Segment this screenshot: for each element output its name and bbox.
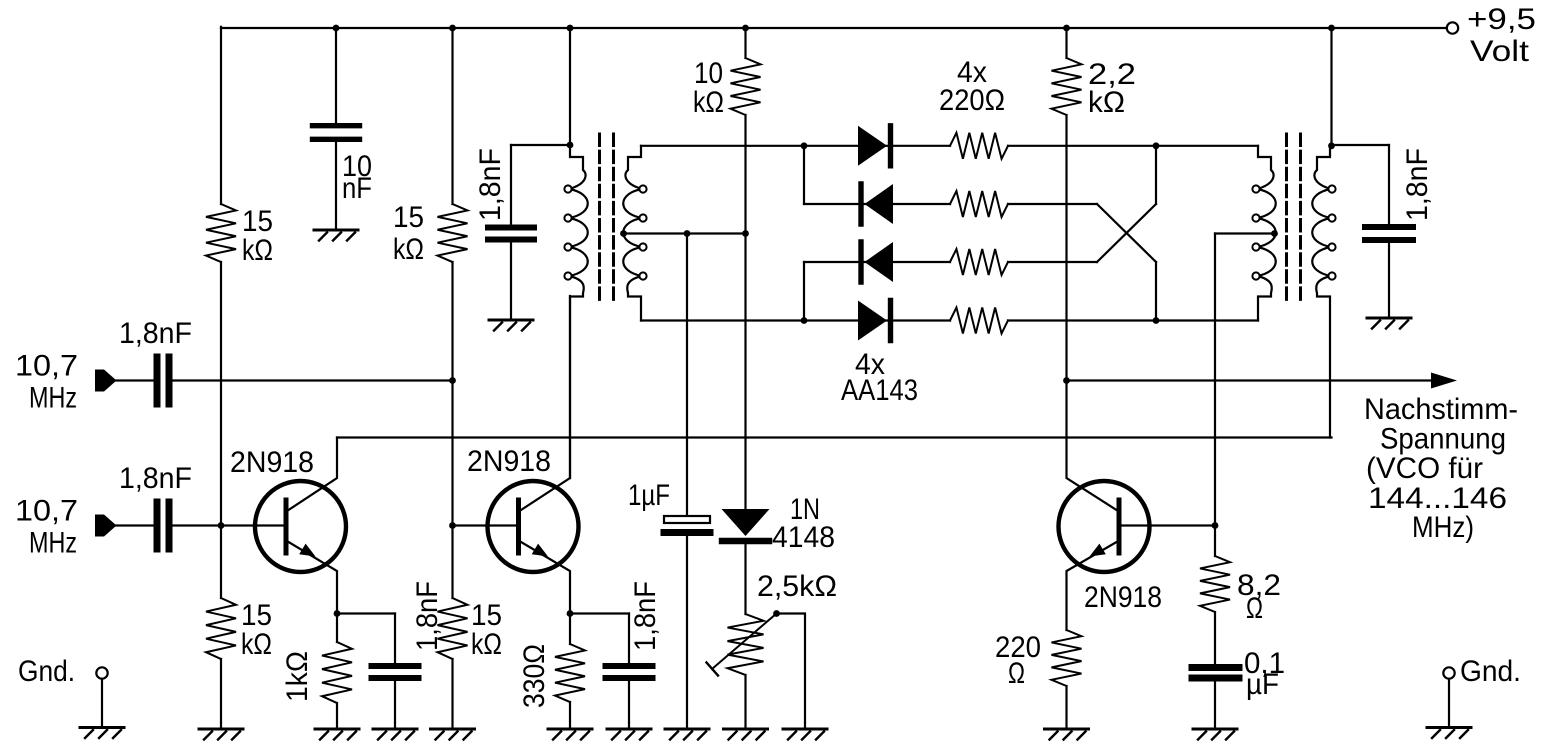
capacitor 1,8nF T1 bbox=[488, 225, 534, 231]
wire 2,2k branch bbox=[1065, 28, 1067, 58]
junction on top rail bbox=[742, 25, 749, 32]
wire Q2 emitter node bbox=[570, 612, 629, 614]
svg-text:1,8nF: 1,8nF bbox=[119, 462, 192, 495]
arrow output bbox=[1431, 373, 1457, 389]
wire 1N4148 branch bbox=[744, 234, 746, 510]
resistor 220 row3 bbox=[950, 249, 1008, 275]
junction Q1 emitter node bbox=[334, 610, 341, 617]
resistor 2,2k bbox=[1052, 58, 1082, 115]
resistor R 15k upper-left bbox=[206, 204, 236, 262]
svg-text:kΩ: kΩ bbox=[241, 628, 272, 661]
wire input2 cap to Q1 base bbox=[173, 524, 287, 526]
junction T2 top bbox=[1328, 142, 1335, 149]
svg-text:2N918: 2N918 bbox=[467, 445, 551, 478]
ground under x=221 bbox=[199, 728, 243, 731]
T2 primary winding bbox=[1257, 146, 1276, 321]
ground under 0,1uF bbox=[1193, 728, 1237, 731]
svg-text:MHz: MHz bbox=[29, 382, 77, 415]
junction on top rail bbox=[449, 25, 456, 32]
transistor Q1 2N918 body bbox=[255, 481, 346, 572]
pot wiper arrow bbox=[712, 614, 777, 670]
svg-text:kΩ: kΩ bbox=[393, 233, 424, 266]
wire crossover diag 2 bbox=[1097, 204, 1156, 262]
wire row1 bbox=[641, 145, 950, 147]
Q3 base bar bbox=[1117, 500, 1122, 553]
ground under 330 bbox=[548, 728, 592, 731]
svg-text:Ω: Ω bbox=[1246, 592, 1263, 625]
T1 secondary winding bbox=[623, 146, 642, 321]
diode 1N4148 bbox=[722, 509, 770, 536]
svg-text:Gnd.: Gnd. bbox=[1460, 655, 1521, 688]
wire crossover right-top bbox=[1155, 146, 1157, 204]
arrow input1 bbox=[95, 370, 117, 392]
wire input1 cap to divider bbox=[173, 379, 453, 381]
T1 primary cusps bbox=[564, 185, 571, 192]
T2 core bbox=[1285, 134, 1288, 303]
resistor 10k bbox=[731, 58, 761, 115]
junction row1 left bbox=[801, 142, 808, 149]
svg-text:Volt: Volt bbox=[1470, 35, 1530, 68]
junction pot wiper bbox=[773, 610, 780, 617]
Q2 emitter lead bbox=[521, 542, 570, 614]
svg-text:2,5kΩ: 2,5kΩ bbox=[757, 570, 837, 603]
ground under 220 bbox=[1045, 728, 1089, 731]
svg-text:MHz): MHz) bbox=[1412, 511, 1474, 544]
wire wiper to gnd bbox=[777, 614, 806, 730]
svg-text:kΩ: kΩ bbox=[1088, 86, 1125, 119]
junction tap/1uF bbox=[684, 230, 691, 237]
transistor Q3 2N918 body bbox=[1059, 481, 1150, 572]
ground under 1,8nF Q2 bbox=[607, 728, 651, 731]
resistor 220 row2 bbox=[950, 191, 1008, 217]
wire Q3 base bbox=[1122, 524, 1216, 526]
ground symbol Gnd right bbox=[1427, 726, 1471, 729]
resistor 220 row1 bbox=[950, 133, 1008, 159]
wire crossover right-bottom bbox=[1155, 262, 1157, 321]
svg-text:1,8nF: 1,8nF bbox=[1401, 148, 1434, 221]
svg-text:+9,5: +9,5 bbox=[1467, 3, 1536, 36]
ground under 10nF bbox=[314, 229, 358, 232]
wire rail to T1 bbox=[569, 28, 571, 145]
svg-text:1,8nF: 1,8nF bbox=[119, 317, 192, 350]
wire 1,8nF Q1 to gnd bbox=[394, 681, 396, 729]
wire 10nF branch bbox=[335, 28, 337, 123]
junction Q2 emitter node bbox=[567, 610, 574, 617]
capacitor 1uF (polarized) bbox=[664, 516, 710, 523]
T2 primary cusps bbox=[1252, 185, 1259, 192]
wire emitter to 330 bbox=[569, 614, 571, 645]
potentiometer 2,5k bbox=[728, 614, 764, 675]
svg-text:4148: 4148 bbox=[772, 521, 835, 554]
wire tap T2 down bbox=[1214, 234, 1216, 526]
diode D4 AA143 row4 bbox=[858, 301, 887, 341]
diode D1 AA143 row1 bbox=[858, 126, 887, 166]
T2 center tap bbox=[1271, 230, 1278, 237]
ground under 1,8nF T2 bbox=[1367, 317, 1411, 320]
ground under x=452.5 bbox=[431, 728, 475, 731]
Q1 collector lead bbox=[289, 438, 338, 511]
wire 1,8nF T1 lead bbox=[510, 145, 512, 225]
capacitor 1,8nF input1 bbox=[154, 357, 161, 404]
wire row4 bbox=[641, 319, 950, 321]
wire feedback bbox=[337, 436, 1332, 438]
capacitor 10nF bbox=[313, 123, 360, 128]
wire 1,8nF Q2 to gnd bbox=[628, 681, 630, 729]
svg-text:kΩ: kΩ bbox=[471, 628, 502, 661]
wire Gnd right bbox=[1448, 679, 1450, 728]
wire pot to gnd bbox=[744, 675, 746, 729]
junction input1 on x=452.5 bbox=[449, 377, 456, 384]
svg-text:Ω: Ω bbox=[1008, 657, 1025, 690]
svg-text:Spannung: Spannung bbox=[1380, 423, 1506, 456]
ground under pot bbox=[724, 728, 768, 731]
svg-text:10,7: 10,7 bbox=[15, 495, 78, 528]
Q3 collector lead bbox=[1067, 381, 1117, 511]
resistor 1k bbox=[322, 642, 352, 703]
Q2 collector lead bbox=[521, 296, 570, 510]
Q2 emitter arrow bbox=[532, 544, 548, 557]
svg-text:1,8nF: 1,8nF bbox=[411, 581, 444, 651]
wire to 1,8nF Q2 bbox=[628, 614, 630, 664]
resistor R 15k lower-mid bbox=[438, 598, 468, 659]
Q1 emitter arrow bbox=[299, 544, 315, 557]
T2 secondary cusps bbox=[1328, 185, 1335, 192]
wire emitter to 1k bbox=[336, 614, 338, 643]
terminal Gnd left bbox=[96, 667, 107, 678]
wire 1uF branch bbox=[686, 234, 688, 517]
junction on top rail bbox=[333, 25, 340, 32]
wire left divider x=221 bbox=[220, 27, 222, 204]
wire row2 bbox=[804, 203, 950, 205]
junction on top rail bbox=[567, 25, 574, 32]
svg-text:µF: µF bbox=[1246, 668, 1279, 701]
terminal +9,5 Volt bbox=[1447, 22, 1458, 33]
Q1 base bar bbox=[284, 500, 289, 553]
wire row1-row2 connector bbox=[803, 146, 805, 204]
svg-text:1µF: 1µF bbox=[628, 479, 670, 512]
wire T2 to 1,8nF bbox=[1332, 144, 1390, 146]
T1 core bbox=[598, 134, 601, 303]
wire 330 to gnd bbox=[569, 702, 571, 729]
T1 center tap bbox=[620, 230, 627, 237]
svg-text:Nachstimm-: Nachstimm- bbox=[1364, 393, 1518, 426]
ground symbol Gnd left bbox=[80, 726, 124, 729]
capacitor 1,8nF T2 bbox=[1365, 224, 1413, 230]
capacitor 1,8nF at Q1 bbox=[372, 663, 419, 669]
svg-text:1,8nF: 1,8nF bbox=[474, 148, 507, 221]
junction row1 right bbox=[1153, 142, 1160, 149]
diode D2 AA143 row2 bbox=[858, 184, 863, 224]
wire row3 bbox=[804, 261, 950, 263]
wire T1 top to 1,8nF bbox=[511, 144, 570, 146]
Q1 emitter lead bbox=[289, 542, 338, 614]
svg-text:Gnd.: Gnd. bbox=[18, 655, 75, 688]
T1 secondary cusps bbox=[639, 185, 646, 192]
wire 1k to gnd bbox=[336, 703, 338, 729]
wire input2 to cap bbox=[116, 524, 154, 526]
wire output bbox=[1067, 379, 1434, 381]
arrow input2 bbox=[95, 515, 117, 537]
resistor 8,2 bbox=[1200, 556, 1230, 612]
wire divider x=452.5 bbox=[451, 27, 453, 204]
junction on top rail bbox=[1063, 25, 1070, 32]
svg-text:(VCO für: (VCO für bbox=[1366, 452, 1483, 485]
wire Q1 emitter node bbox=[337, 612, 395, 614]
svg-text:kΩ: kΩ bbox=[242, 234, 273, 267]
svg-text:2N918: 2N918 bbox=[230, 446, 314, 479]
Q3 emitter lead bbox=[1067, 542, 1117, 630]
resistor 330 bbox=[555, 644, 585, 702]
ground under 1,8nF Q1 bbox=[373, 728, 417, 731]
svg-text:AA143: AA143 bbox=[841, 374, 918, 407]
resistor R 15k lower-left bbox=[206, 598, 236, 659]
wire crossover diag 1 bbox=[1097, 204, 1156, 262]
T2 secondary winding bbox=[1312, 146, 1331, 438]
junction input2/base divider bbox=[218, 522, 225, 529]
junction tap/10k bbox=[742, 230, 749, 237]
svg-text:2N918: 2N918 bbox=[1084, 581, 1162, 614]
resistor 220 Q3 bbox=[1052, 630, 1082, 686]
wire 8,2 to 0,1uF bbox=[1214, 612, 1216, 664]
T1 primary winding bbox=[569, 146, 588, 478]
svg-text:15: 15 bbox=[393, 201, 424, 234]
wire Gnd left bbox=[101, 679, 103, 728]
junction T1 top bbox=[567, 142, 574, 149]
svg-text:10,7: 10,7 bbox=[15, 350, 78, 383]
resistor 220 row4 bbox=[950, 308, 1008, 334]
ground under 1,8nF T1 bbox=[489, 319, 533, 322]
ground under 1k bbox=[315, 728, 359, 731]
wire Q2 base bbox=[453, 524, 519, 526]
resistor R 15k upper-mid bbox=[438, 204, 468, 262]
Q2 base bar bbox=[516, 500, 521, 553]
junction Q3 base bbox=[1212, 522, 1219, 529]
svg-text:1kΩ: 1kΩ bbox=[281, 651, 314, 702]
junction row4 right bbox=[1153, 317, 1160, 324]
junction row4 left bbox=[801, 317, 808, 324]
svg-text:220Ω: 220Ω bbox=[939, 84, 1005, 117]
junction output node bbox=[1063, 377, 1070, 384]
diode D3 AA143 row3 bbox=[858, 242, 863, 282]
svg-text:1,8nF: 1,8nF bbox=[629, 581, 662, 651]
wire row3-row4 connector bbox=[803, 262, 805, 321]
wire base to 8,2 bbox=[1214, 526, 1216, 557]
svg-text:330Ω: 330Ω bbox=[518, 644, 551, 708]
ground under 1uF bbox=[665, 728, 709, 731]
wire rail to T2 bbox=[1330, 28, 1332, 146]
wire input1 to cap bbox=[116, 379, 154, 381]
svg-text:nF: nF bbox=[342, 172, 372, 205]
ground under wiper bbox=[783, 728, 827, 731]
wire +9,5V top rail bbox=[221, 27, 1447, 29]
junction on top rail bbox=[1328, 25, 1335, 32]
capacitor 1,8nF input2 bbox=[154, 502, 161, 549]
svg-text:MHz: MHz bbox=[29, 527, 77, 560]
transistor Q2 2N918 body bbox=[488, 481, 579, 572]
capacitor 1,8nF at Q2 bbox=[606, 663, 653, 669]
Q3 emitter arrow bbox=[1090, 544, 1106, 557]
wire 0,1uF to gnd bbox=[1214, 682, 1216, 730]
wire to 1,8nF Q1 bbox=[394, 614, 396, 664]
terminal Gnd right bbox=[1443, 667, 1454, 678]
capacitor 0,1uF bbox=[1192, 664, 1239, 671]
wire 220 to gnd bbox=[1065, 686, 1067, 729]
svg-text:kΩ: kΩ bbox=[693, 86, 724, 119]
junction Q2 base bbox=[449, 522, 456, 529]
wire 10k branch bbox=[744, 28, 746, 58]
